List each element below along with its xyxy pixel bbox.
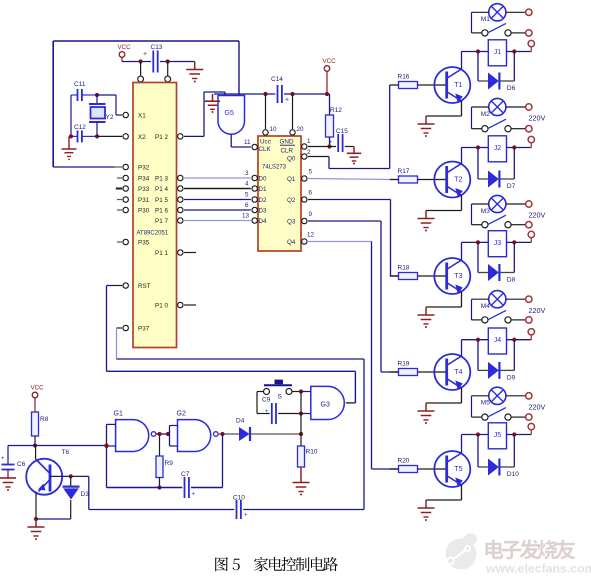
svg-text:P33: P33 xyxy=(138,186,150,193)
svg-text:P37: P37 xyxy=(138,326,150,333)
svg-text:P32: P32 xyxy=(138,165,150,172)
svg-text:D6: D6 xyxy=(507,85,516,92)
svg-text:Ucc: Ucc xyxy=(260,139,271,146)
svg-text:+: + xyxy=(285,97,289,104)
svg-text:1: 1 xyxy=(307,138,311,145)
svg-text:AT89C2051: AT89C2051 xyxy=(137,231,169,237)
svg-text:D4: D4 xyxy=(236,418,245,425)
svg-text:D8: D8 xyxy=(507,277,516,284)
svg-text:P35: P35 xyxy=(138,240,150,247)
svg-text:C7: C7 xyxy=(181,471,190,478)
svg-text:D9: D9 xyxy=(507,374,516,381)
svg-text:J3: J3 xyxy=(494,240,502,247)
svg-text:Q2: Q2 xyxy=(287,197,296,204)
svg-text:G3: G3 xyxy=(321,402,330,409)
svg-text:D0: D0 xyxy=(259,176,268,183)
svg-text:www.elecfans.com: www.elecfans.com xyxy=(485,562,591,576)
svg-text:C10: C10 xyxy=(233,495,245,502)
svg-text:220V: 220V xyxy=(529,306,546,315)
svg-text:CLR: CLR xyxy=(281,148,294,155)
svg-text:R19: R19 xyxy=(398,361,410,368)
svg-text:R20: R20 xyxy=(398,458,410,465)
svg-text:G5: G5 xyxy=(225,110,234,117)
svg-text:C9: C9 xyxy=(262,397,271,404)
svg-text:C14: C14 xyxy=(271,76,283,83)
svg-text:C11: C11 xyxy=(74,81,86,88)
svg-text:P1 0: P1 0 xyxy=(155,303,168,310)
svg-text:CLK: CLK xyxy=(259,146,272,153)
svg-text:J2: J2 xyxy=(494,145,502,152)
svg-text:RST: RST xyxy=(138,283,151,290)
svg-text:M1: M1 xyxy=(481,16,490,23)
svg-text:T6: T6 xyxy=(62,449,70,456)
svg-text:20: 20 xyxy=(297,126,305,133)
svg-text:VCC: VCC xyxy=(31,385,45,392)
svg-text:4: 4 xyxy=(245,181,249,188)
svg-text:R16: R16 xyxy=(398,74,410,81)
svg-text:3: 3 xyxy=(245,170,249,177)
svg-text:R18: R18 xyxy=(398,265,410,272)
svg-text:D4: D4 xyxy=(259,218,268,225)
svg-text:P1 2: P1 2 xyxy=(155,134,168,141)
svg-text:C12: C12 xyxy=(74,124,86,131)
svg-text:C13: C13 xyxy=(151,44,163,51)
svg-text:J5: J5 xyxy=(494,432,502,439)
svg-text:G1: G1 xyxy=(114,411,123,418)
svg-text:G2: G2 xyxy=(177,411,186,418)
svg-text:13: 13 xyxy=(242,213,250,220)
svg-text:P34: P34 xyxy=(138,176,150,183)
svg-text:Q0: Q0 xyxy=(287,156,296,163)
svg-text:+: + xyxy=(1,456,5,462)
svg-text:T3: T3 xyxy=(454,273,462,280)
svg-text:P1 1: P1 1 xyxy=(155,250,168,257)
svg-text:M4: M4 xyxy=(481,303,490,310)
svg-text:T4: T4 xyxy=(454,369,462,376)
svg-text:Q4: Q4 xyxy=(287,239,296,246)
svg-text:R12: R12 xyxy=(330,107,342,114)
svg-text:9: 9 xyxy=(309,211,313,218)
svg-text:M2: M2 xyxy=(481,111,490,118)
svg-text:P1 7: P1 7 xyxy=(155,218,168,225)
svg-text:R17: R17 xyxy=(398,168,410,175)
svg-text:P1 4: P1 4 xyxy=(155,186,168,193)
svg-text:Q3: Q3 xyxy=(287,219,296,226)
svg-text:12: 12 xyxy=(307,232,315,239)
svg-text:VCC: VCC xyxy=(118,44,132,51)
svg-text:220V: 220V xyxy=(529,403,546,412)
svg-text:T5: T5 xyxy=(454,466,462,473)
svg-text:T2: T2 xyxy=(454,177,462,184)
svg-text:T1: T1 xyxy=(454,82,462,89)
svg-text:R9: R9 xyxy=(165,460,174,467)
svg-text:P1 3: P1 3 xyxy=(155,176,168,183)
svg-text:P31: P31 xyxy=(138,197,150,204)
svg-text:M5: M5 xyxy=(481,400,490,407)
svg-text:C6: C6 xyxy=(17,461,26,468)
svg-text:Y2: Y2 xyxy=(106,114,114,121)
svg-text:Q1: Q1 xyxy=(287,176,296,183)
svg-text:R10: R10 xyxy=(306,449,318,456)
svg-text:X2: X2 xyxy=(138,134,146,141)
svg-text:6: 6 xyxy=(309,190,313,197)
svg-text:5: 5 xyxy=(309,169,313,176)
svg-text:74LS273: 74LS273 xyxy=(262,165,287,171)
svg-text:D1: D1 xyxy=(259,186,268,193)
svg-text:P30: P30 xyxy=(138,208,150,215)
svg-text:P1 6: P1 6 xyxy=(155,208,168,215)
svg-text:+: + xyxy=(143,51,147,58)
svg-text:J1: J1 xyxy=(494,49,502,56)
svg-text:R8: R8 xyxy=(40,416,49,423)
svg-text:11: 11 xyxy=(244,139,251,146)
svg-text:X1: X1 xyxy=(138,113,146,120)
svg-text:+: + xyxy=(244,513,248,519)
svg-text:C15: C15 xyxy=(336,128,348,135)
svg-text:D7: D7 xyxy=(507,183,516,190)
svg-text:J4: J4 xyxy=(494,337,502,344)
svg-text:M3: M3 xyxy=(481,208,490,215)
svg-text:+: + xyxy=(192,492,196,498)
svg-text:P1 5: P1 5 xyxy=(155,197,168,204)
svg-text:S: S xyxy=(278,394,283,401)
svg-text:5: 5 xyxy=(245,192,249,199)
svg-text:2: 2 xyxy=(307,149,311,156)
svg-text:220V: 220V xyxy=(529,211,546,220)
svg-text:D3: D3 xyxy=(81,491,90,498)
svg-text:10: 10 xyxy=(270,126,278,133)
svg-text:6: 6 xyxy=(245,202,249,209)
svg-text:GND: GND xyxy=(280,139,294,146)
svg-text:D2: D2 xyxy=(259,197,268,204)
svg-text:D3: D3 xyxy=(259,208,268,215)
svg-text:+: + xyxy=(329,140,333,146)
svg-text:+: + xyxy=(265,409,269,415)
svg-text:VCC: VCC xyxy=(323,58,337,65)
svg-text:220V: 220V xyxy=(529,114,546,123)
svg-text:D10: D10 xyxy=(507,471,519,478)
